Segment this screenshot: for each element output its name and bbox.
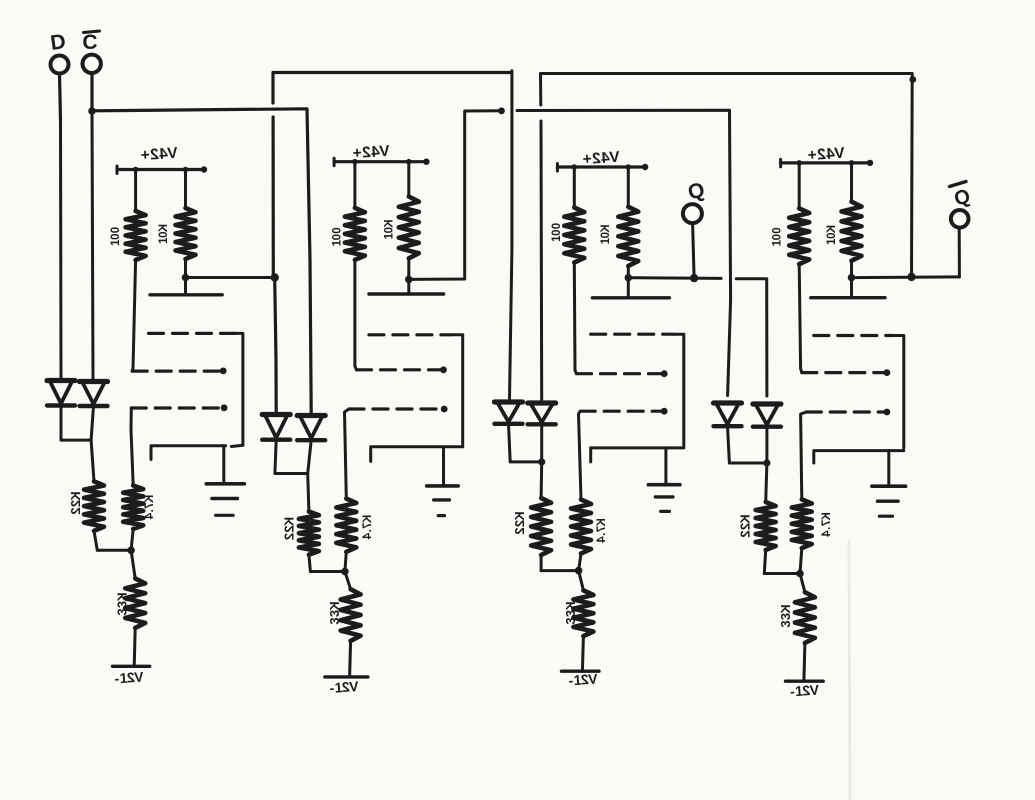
label 33K stage3 xyxy=(563,601,578,624)
wire diode join stage2 xyxy=(275,440,311,474)
svg-text:D: D xyxy=(49,30,67,55)
wire stage2-output riser xyxy=(409,111,502,280)
node output junction stage1 xyxy=(271,273,279,281)
transistor cathode wire stage1 xyxy=(151,446,226,460)
node 10K junction stage3 xyxy=(625,274,633,282)
diode B stage2 xyxy=(297,416,325,441)
transistor plate bar stage3 xyxy=(592,278,669,298)
svg-text:0: 0 xyxy=(158,231,170,237)
terminal Q xyxy=(683,204,702,278)
transistor grid row3 stage3 xyxy=(580,408,667,415)
transistor grid row2 stage3 xyxy=(577,370,668,377)
node 10K junction stage4 xyxy=(848,274,856,282)
svg-text:2: 2 xyxy=(738,523,753,530)
wire output stage4 xyxy=(852,275,960,279)
label Q xyxy=(686,178,707,204)
wire 100-to-grid stage4 xyxy=(799,264,802,373)
svg-text:0: 0 xyxy=(332,227,344,233)
terminal C-bar xyxy=(83,55,101,111)
wire output stage3 xyxy=(628,276,721,280)
transistor grid row1 stage4 xyxy=(814,336,904,449)
label 33K stage4 xyxy=(778,604,793,627)
svg-text:+: + xyxy=(582,151,592,169)
wire bus1 drop to stage3 diode xyxy=(510,71,512,399)
svg-text:+: + xyxy=(807,147,817,165)
terminal D xyxy=(51,56,69,121)
svg-text:7: 7 xyxy=(144,502,156,508)
resistor 4.7K stage3 xyxy=(571,411,591,570)
ground stage2 xyxy=(427,447,459,516)
svg-text:2: 2 xyxy=(817,146,827,164)
wire 100-to-grid stage1 xyxy=(132,260,135,371)
resistor 10K stage1 xyxy=(176,167,196,278)
transistor grid row3 stage4 xyxy=(806,409,890,416)
svg-text:3: 3 xyxy=(327,610,342,617)
label -12V stage4 xyxy=(789,681,820,699)
svg-text:0: 0 xyxy=(551,223,563,229)
svg-text:0: 0 xyxy=(826,232,838,238)
transistor plate bar stage4 xyxy=(811,278,885,298)
transistor plate bar stage2 xyxy=(369,279,444,294)
diode A stage4 xyxy=(714,403,742,426)
svg-text:3: 3 xyxy=(778,613,793,620)
svg-text:2: 2 xyxy=(738,530,753,537)
svg-text:4: 4 xyxy=(821,530,833,537)
node 10K junction stage1 xyxy=(182,274,190,282)
diode A stage3 xyxy=(495,402,523,424)
resistor 100 stage1 xyxy=(126,167,146,260)
node output junction stage3 xyxy=(690,274,698,282)
svg-text:2: 2 xyxy=(150,146,160,164)
svg-text:2: 2 xyxy=(68,507,83,514)
svg-text:7: 7 xyxy=(362,522,374,528)
diode B stage3 xyxy=(528,403,556,424)
resistor 10K stage4 xyxy=(842,160,862,278)
transistor grid row1 stage3 xyxy=(591,334,684,446)
resistor 22K stage1 xyxy=(84,440,104,550)
wire diode join stage3 xyxy=(509,424,546,466)
label 22K stage3 xyxy=(512,511,527,534)
svg-text:3: 3 xyxy=(778,620,793,627)
svg-text:0: 0 xyxy=(384,227,396,233)
wire diode join stage1 xyxy=(61,406,94,441)
resistor 10K stage3 xyxy=(618,164,638,278)
resistor 33K stage3 xyxy=(573,571,593,672)
svg-text:4: 4 xyxy=(144,513,156,520)
resistor 22K stage3 xyxy=(531,462,551,571)
svg-text:K: K xyxy=(115,592,130,602)
resistor 33K stage4 xyxy=(795,574,815,682)
wire bus stage3-diodeB to stage4-output xyxy=(541,74,913,277)
svg-text:2: 2 xyxy=(281,525,296,532)
resistor 33K stage1 xyxy=(125,550,145,666)
resistor 4.7K stage1 xyxy=(123,408,143,550)
+24V power rail stage1 xyxy=(117,166,207,174)
svg-text:V: V xyxy=(134,668,145,685)
wire stage2-output to stage4 diodeA xyxy=(517,110,731,395)
ground stage1 xyxy=(206,446,244,516)
svg-text:0: 0 xyxy=(332,234,344,240)
node bus2 corner xyxy=(909,76,916,83)
-12V power rail stage2 xyxy=(325,675,368,678)
resistor 100 stage2 xyxy=(345,159,365,260)
svg-text:0: 0 xyxy=(110,233,122,239)
wire 100-to-grid stage2 xyxy=(355,260,357,370)
label 100 stage1 xyxy=(110,227,122,246)
terminal Q-bar xyxy=(951,210,969,277)
label 4.7K stage4 xyxy=(821,512,833,537)
node 10K junction stage2 xyxy=(405,276,413,284)
wire bottom junction stage1 xyxy=(97,547,135,555)
svg-text:V: V xyxy=(379,143,391,161)
ground stage4 xyxy=(872,451,906,517)
svg-text:K: K xyxy=(563,601,578,611)
node output junction stage4 xyxy=(907,273,915,281)
svg-text:K: K xyxy=(778,604,793,614)
wire diode join stage4 xyxy=(728,426,771,466)
wire bus stage1-output to stage3 xyxy=(273,73,512,277)
wire stage1-output drop to stage2 diodeA xyxy=(275,278,277,414)
+24V power rail stage3 xyxy=(557,164,648,172)
svg-text:C: C xyxy=(82,31,97,54)
wire bus2 drop to stage3 diodeB xyxy=(540,121,544,403)
label 10K stage1 xyxy=(158,224,170,244)
wire C-bar input xyxy=(92,111,93,379)
svg-text:V: V xyxy=(834,145,846,163)
label 10K stage3 xyxy=(600,224,612,244)
svg-text:K: K xyxy=(144,495,156,504)
label Q-bar xyxy=(950,182,973,211)
label 22K stage4 xyxy=(738,514,753,537)
wire output stage1 xyxy=(186,276,275,279)
transistor grid row1 stage1 xyxy=(149,333,243,446)
node stage2 riser end xyxy=(498,107,505,114)
svg-text:0: 0 xyxy=(772,234,784,240)
wire C-bar to stage2 diode xyxy=(92,109,311,413)
svg-text:V: V xyxy=(609,149,621,167)
wire stage3-output to stage4 diodeB xyxy=(736,279,767,396)
transistor cathode wire stage3 xyxy=(591,448,684,462)
svg-text:.: . xyxy=(821,527,833,530)
transistor grid row2 stage1 xyxy=(132,368,226,375)
label 4.7K stage3 xyxy=(596,518,608,543)
svg-text:K: K xyxy=(384,219,396,228)
resistor 100 stage3 xyxy=(564,164,584,262)
diode B stage4 xyxy=(753,404,781,427)
svg-text:K: K xyxy=(826,225,838,234)
+24V power rail stage2 xyxy=(334,158,429,166)
label C-bar xyxy=(82,31,99,54)
label 10K stage4 xyxy=(826,225,838,245)
label 100 stage4 xyxy=(772,227,784,246)
label -12V stage3 xyxy=(568,670,599,688)
label 100 stage2 xyxy=(332,227,344,246)
resistor 10K stage2 xyxy=(399,159,419,280)
transistor grid row2 stage2 xyxy=(357,366,447,373)
svg-text:0: 0 xyxy=(600,232,612,238)
label 33K stage2 xyxy=(327,601,342,624)
transistor cathode wire stage2 xyxy=(371,447,463,462)
svg-text:3: 3 xyxy=(327,617,342,624)
label D xyxy=(49,30,67,55)
svg-text:0: 0 xyxy=(551,229,563,235)
resistor 100 stage4 xyxy=(789,160,809,264)
label 100 stage3 xyxy=(551,223,563,242)
label 22K stage2 xyxy=(281,517,296,540)
label -12V stage2 xyxy=(329,678,360,696)
transistor grid row1 stage2 xyxy=(369,335,463,447)
svg-text:+: + xyxy=(140,147,150,165)
svg-text:K: K xyxy=(738,514,753,524)
resistor 33K stage2 xyxy=(341,572,361,677)
svg-text:2: 2 xyxy=(592,150,602,168)
label 22K stage1 xyxy=(68,491,83,514)
svg-text:.: . xyxy=(596,533,608,536)
svg-text:0: 0 xyxy=(772,227,784,233)
svg-text:2: 2 xyxy=(281,533,296,540)
svg-text:2: 2 xyxy=(362,144,372,162)
label +24V stage2 xyxy=(352,143,391,163)
svg-text:K: K xyxy=(821,512,833,521)
svg-text:V: V xyxy=(167,145,179,163)
svg-text:K: K xyxy=(68,491,83,501)
svg-text:2: 2 xyxy=(512,527,527,534)
ground stage3 xyxy=(648,448,680,512)
+24V power rail stage4 xyxy=(781,159,874,167)
diode B stage1 xyxy=(80,382,108,407)
transistor grid row3 stage2 xyxy=(349,406,448,413)
label 4.7K stage1 xyxy=(144,495,156,520)
label 33K stage1 xyxy=(115,592,130,615)
svg-text:7: 7 xyxy=(596,526,608,532)
svg-text:K: K xyxy=(327,601,342,611)
diode A stage1 xyxy=(47,381,75,406)
svg-text:3: 3 xyxy=(115,601,130,608)
svg-text:7: 7 xyxy=(821,520,833,526)
svg-text:V: V xyxy=(809,681,820,698)
transistor grid row3 stage1 xyxy=(131,404,227,411)
node C-bar junction xyxy=(88,107,96,115)
-12V power rail stage3 xyxy=(562,670,600,673)
resistor 22K stage2 xyxy=(299,474,319,572)
wire bottom junction stage3 xyxy=(541,567,582,575)
resistor 4.7K stage2 xyxy=(336,409,356,572)
svg-text:V: V xyxy=(349,678,360,695)
svg-text:K: K xyxy=(512,511,527,521)
-12V power rail stage4 xyxy=(786,680,824,683)
label +24V stage4 xyxy=(807,145,846,165)
label -12V stage1 xyxy=(114,668,145,686)
resistor 22K stage4 xyxy=(756,463,776,574)
svg-text:2: 2 xyxy=(512,520,527,527)
wire bottom junction stage2 xyxy=(310,568,348,576)
svg-text:K: K xyxy=(600,224,612,233)
label +24V stage3 xyxy=(582,149,621,169)
svg-text:4: 4 xyxy=(362,533,374,540)
wire D input xyxy=(59,120,63,379)
svg-text:3: 3 xyxy=(563,610,578,617)
transistor grid row2 stage4 xyxy=(802,369,891,376)
wire 100-to-grid stage3 xyxy=(574,263,576,374)
svg-text:.: . xyxy=(144,509,156,512)
svg-text:3: 3 xyxy=(563,617,578,624)
-12V power rail stage1 xyxy=(113,665,150,668)
svg-text:0: 0 xyxy=(110,227,122,233)
svg-text:V: V xyxy=(588,670,599,687)
transistor plate bar stage1 xyxy=(150,278,222,295)
svg-text:K: K xyxy=(596,518,608,527)
label 4.7K stage2 xyxy=(362,515,374,540)
svg-text:K: K xyxy=(362,515,374,524)
resistor 4.7K stage4 xyxy=(792,412,812,574)
svg-text:3: 3 xyxy=(115,608,130,615)
label +24V stage1 xyxy=(140,145,179,165)
diode A stage2 xyxy=(262,415,290,440)
svg-text:.: . xyxy=(362,529,374,532)
svg-text:2: 2 xyxy=(68,500,83,507)
wire bottom junction stage4 xyxy=(764,570,804,578)
svg-text:K: K xyxy=(158,224,170,233)
svg-text:K: K xyxy=(281,517,296,527)
transistor cathode wire stage4 xyxy=(814,451,904,463)
svg-text:4: 4 xyxy=(596,536,608,543)
label 10K stage2 xyxy=(384,219,396,239)
